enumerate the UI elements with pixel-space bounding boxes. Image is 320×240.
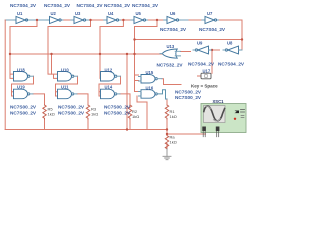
- svg-text:NC7S00_2V: NC7S00_2V: [10, 105, 37, 110]
- svg-text:U18: U18: [17, 68, 25, 73]
- svg-text:1kΩ: 1kΩ: [91, 112, 98, 117]
- svg-text:1kΩ: 1kΩ: [170, 114, 177, 119]
- svg-text:NC7S04_2V: NC7S04_2V: [10, 3, 37, 8]
- svg-text:U2: U2: [51, 11, 57, 16]
- wire: main chain horizontal segments: [61, 19, 242, 21]
- junction H1 x51: [50, 53, 52, 55]
- wire: bottom bus1: [5, 129, 167, 131]
- wire: tap T1 (U1 out, down-left-down): [10, 20, 37, 27]
- svg-text:NC7S00_2V: NC7S00_2V: [58, 111, 85, 116]
- junction U5 output tap: [156, 19, 158, 21]
- svg-text:NC7S00_2V: NC7S00_2V: [58, 105, 85, 110]
- svg-text:NC7S32_2V: NC7S32_2V: [157, 63, 184, 68]
- junction U3 output tap: [89, 19, 91, 21]
- wire: U15 inputs from T4 column: [135, 75, 139, 81]
- inverter U9 (points left): [193, 46, 212, 54]
- wire: U16 output (teal net to R1 top): [157, 90, 167, 99]
- svg-text:U15: U15: [146, 70, 154, 75]
- wire: Ra bottom to ground: [166, 144, 168, 150]
- wire: tap T4 (U5 out): [135, 20, 158, 92]
- junction U7 loop / U8 input: [241, 38, 243, 40]
- inverter U8 (points left): [223, 46, 242, 54]
- svg-text:NC7S04_2V: NC7S04_2V: [132, 3, 159, 8]
- svg-text:U19: U19: [17, 85, 25, 90]
- junction bottom bus right: [166, 128, 168, 130]
- svg-text:U11: U11: [61, 85, 69, 90]
- inverter U6: [167, 16, 179, 23]
- wire: H2 drop to bottom bus: [126, 54, 128, 130]
- nand U12: [101, 72, 121, 82]
- nand U11: [58, 89, 78, 99]
- wire: U15 output dogleg: [162, 79, 181, 85]
- wire: R1 bottom to junction: [166, 119, 168, 136]
- svg-text:U10: U10: [61, 68, 69, 73]
- svg-text:NC7S04_2V: NC7S04_2V: [188, 62, 215, 67]
- inverter U3: [74, 16, 86, 23]
- resistor R1: [165, 105, 168, 119]
- teal pin stubs top row: [13, 19, 218, 21]
- junction bottom bus x125: [126, 128, 128, 130]
- svg-text:U6: U6: [170, 11, 176, 16]
- switch U17: [201, 73, 211, 79]
- inverter U7: [205, 16, 217, 23]
- wire: pair1 wrap (U18 out to U19 in): [12, 76, 34, 96]
- wire: R1 column top: [166, 99, 168, 105]
- svg-text:U4: U4: [108, 11, 114, 16]
- svg-text:U5: U5: [136, 11, 142, 16]
- resistor R2: [128, 105, 131, 119]
- svg-text:NC7S04_2V: NC7S04_2V: [77, 3, 104, 8]
- junction U1 output tap: [36, 19, 38, 21]
- junction H1 x125: [126, 53, 128, 55]
- wire: R3 bottom: [87, 119, 89, 130]
- inverter U4: [107, 16, 119, 23]
- nand U14: [101, 89, 121, 99]
- svg-text:U14: U14: [105, 85, 113, 90]
- svg-text:U17: U17: [203, 68, 211, 73]
- svg-text:1kΩ: 1kΩ: [48, 112, 55, 117]
- svg-text:Key = Space: Key = Space: [191, 83, 218, 88]
- svg-text:U3: U3: [75, 11, 81, 16]
- nand U10: [58, 72, 78, 82]
- inverter U1: [16, 16, 28, 23]
- wire: R2 bottom: [129, 119, 131, 130]
- svg-text:U1: U1: [17, 11, 23, 16]
- wire: U7 output loop right side: [241, 20, 243, 50]
- wire: drop from H1 to pair2: [51, 54, 53, 74]
- wire: pair2 wrap: [56, 76, 78, 96]
- wire: H2 from U7 loop y=40: [135, 39, 243, 41]
- OR gate U13 (mirrored, output left): [160, 49, 181, 58]
- wire: pair3 output to R2: [120, 94, 130, 105]
- resistor R3: [86, 105, 89, 119]
- wire: H1 feedback bus y=54: [10, 53, 162, 55]
- svg-text:NC7S04_2V: NC7S04_2V: [104, 3, 131, 8]
- svg-text:U13: U13: [167, 44, 175, 49]
- svg-text:1kΩ: 1kΩ: [132, 114, 139, 119]
- junction U4 output tap: [122, 19, 124, 21]
- junction H1 left tee: [9, 53, 11, 55]
- svg-text:U12: U12: [105, 68, 113, 73]
- nand U15: [139, 75, 163, 84]
- wire: U16 lower input from bus riser: [137, 96, 147, 130]
- svg-text:U7: U7: [207, 11, 213, 16]
- wire: switch riser: [211, 50, 213, 73]
- inverter U2: [50, 16, 62, 23]
- junction H1 x134: [133, 53, 135, 55]
- svg-text:NC7S04_2V: NC7S04_2V: [199, 27, 226, 32]
- svg-text:NC7S00_2V: NC7S00_2V: [175, 90, 202, 95]
- svg-text:NC7S00_2V: NC7S00_2V: [10, 111, 37, 116]
- svg-text:NC7S00_2V: NC7S00_2V: [104, 105, 131, 110]
- wire: pair3 wrap: [99, 76, 121, 96]
- junction H2 left tee: [133, 38, 135, 40]
- resistor Ra: [165, 136, 168, 149]
- oscilloscope XSC1: [201, 104, 246, 137]
- junction Ra top: [166, 133, 168, 135]
- svg-text:U9: U9: [197, 41, 203, 46]
- wire: U8 to U9 segment: [212, 49, 220, 51]
- ground: [163, 149, 171, 160]
- wire: bus2 to scope terminal: [167, 133, 206, 135]
- nand U16: [139, 90, 158, 99]
- wire: tap T2 (U3 out): [48, 20, 91, 78]
- resistor R5: [43, 105, 46, 119]
- svg-text:NC7S00_2V: NC7S00_2V: [104, 111, 131, 116]
- nand U18: [14, 72, 34, 82]
- wire: pair1 output to R5: [33, 94, 45, 105]
- wire: pair1 input stubs: [10, 27, 14, 79]
- wire: left vertical V1: [4, 20, 6, 130]
- junction H1 x100: [99, 53, 101, 55]
- wire: tap T3 (U4 out): [100, 20, 123, 78]
- wire: switch left stub: [198, 75, 202, 77]
- wire: R5 bottom: [44, 119, 46, 130]
- svg-text:NC7S00_2V: NC7S00_2V: [175, 95, 202, 100]
- junction switch riser: [211, 49, 213, 51]
- svg-text:U8: U8: [227, 41, 233, 46]
- svg-text:1kΩ: 1kΩ: [170, 140, 177, 145]
- wire: U9 to U13 segment: [181, 51, 191, 53]
- svg-text:NC7S04_2V: NC7S04_2V: [44, 3, 71, 8]
- inverter U5: [134, 16, 146, 23]
- nand U19: [14, 89, 34, 99]
- svg-text:U16: U16: [146, 85, 154, 90]
- svg-text:XSC1: XSC1: [213, 99, 225, 104]
- wire: pair2 output to R3: [77, 94, 88, 105]
- svg-text:NC7S04_2V: NC7S04_2V: [218, 62, 245, 67]
- svg-text:NC7S04_2V: NC7S04_2V: [160, 27, 187, 32]
